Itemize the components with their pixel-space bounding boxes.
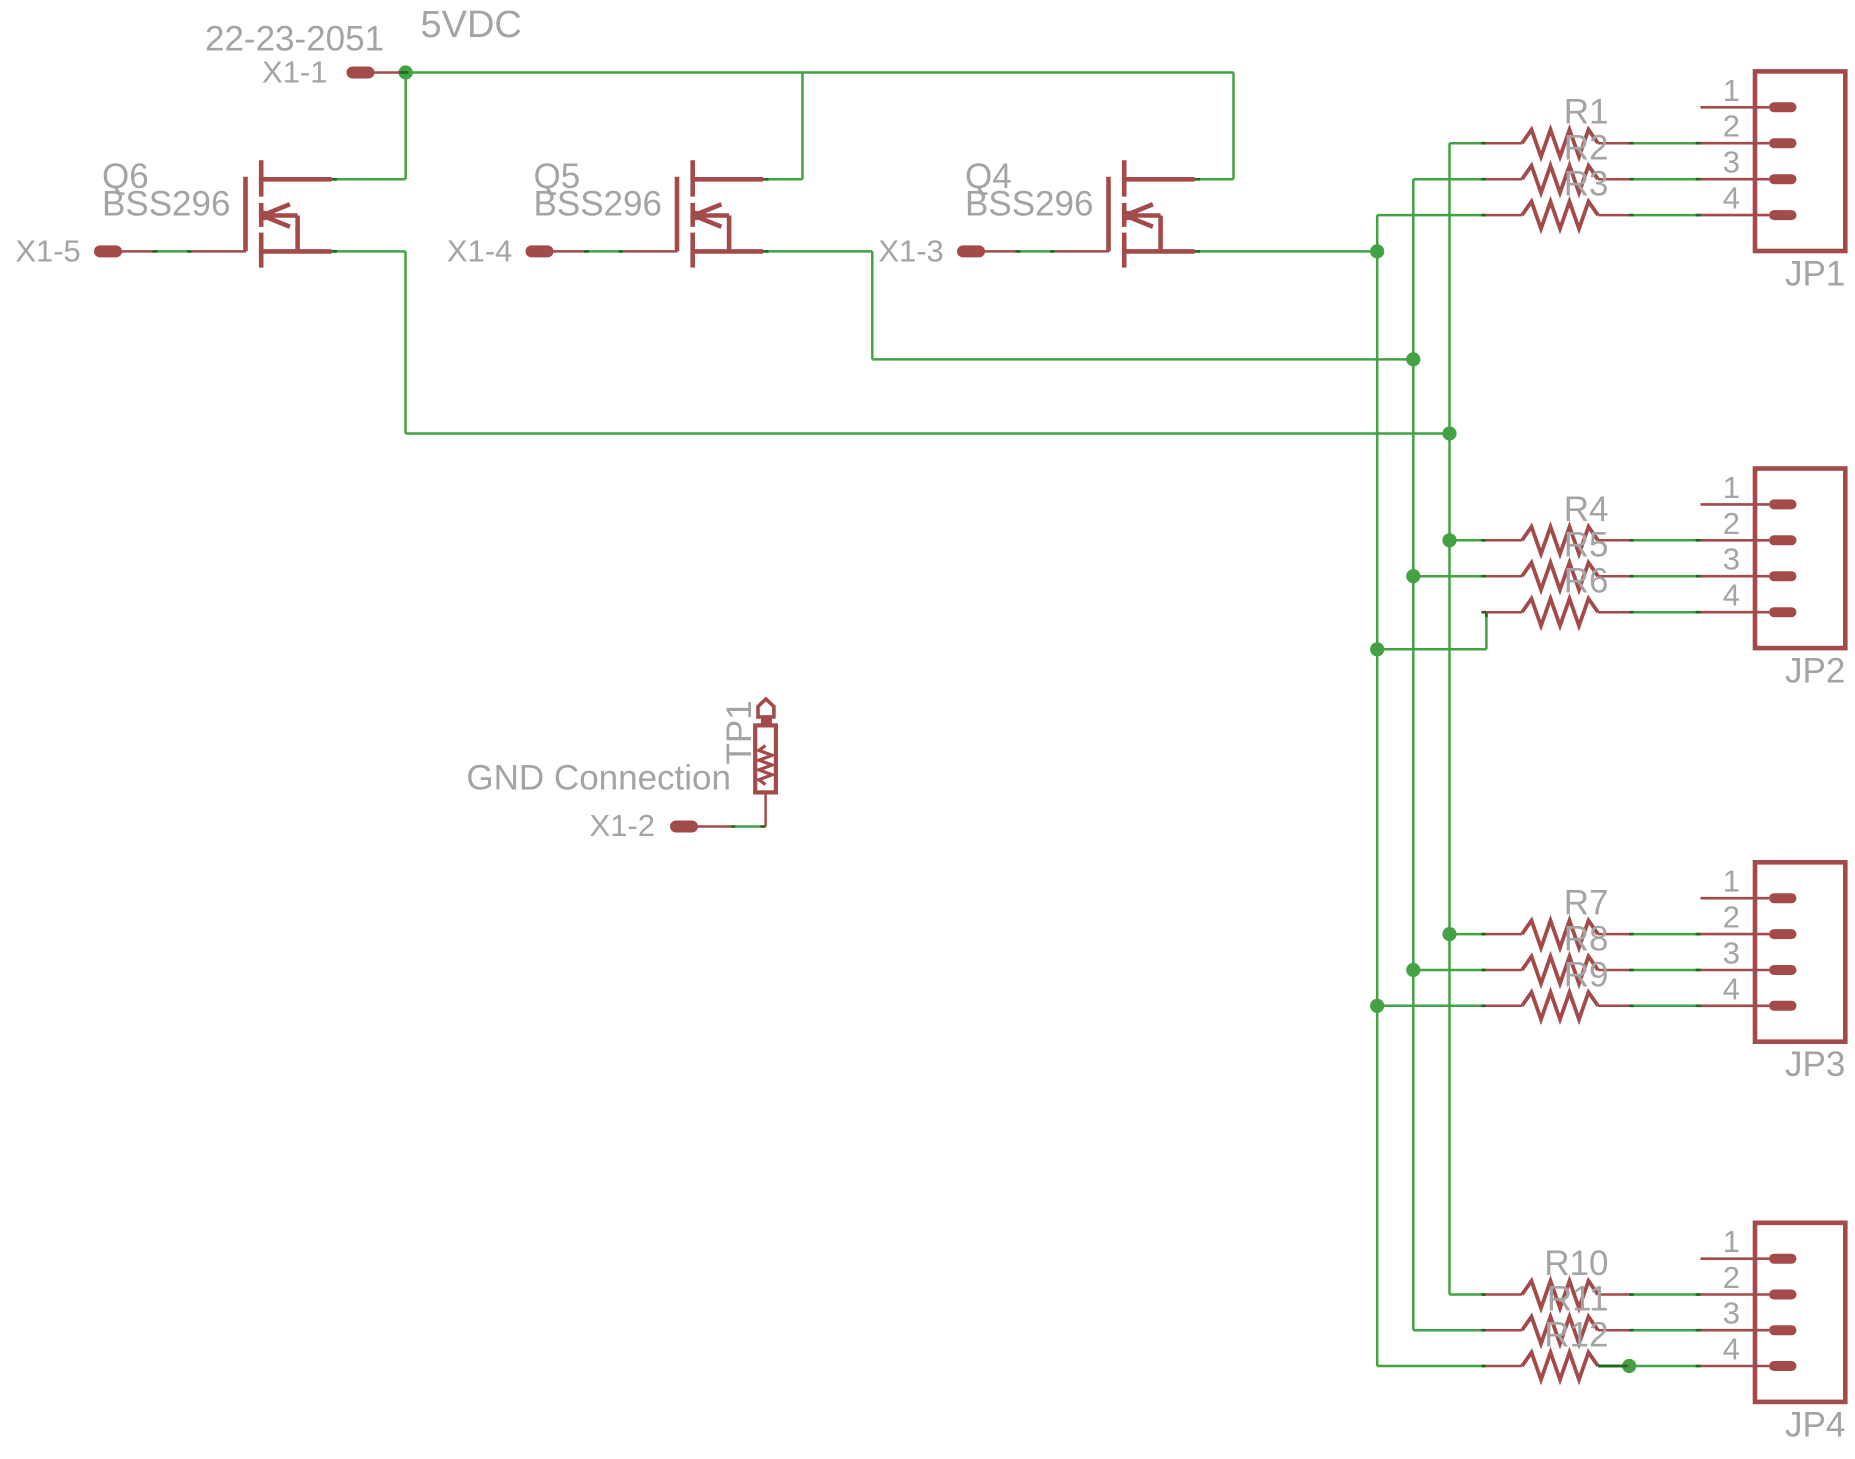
wire X1-4 gate lead red segment xyxy=(623,250,677,253)
svg-text:1: 1 xyxy=(1723,1224,1740,1259)
wire R out to JP3 pin 4 xyxy=(1629,1005,1700,1008)
connector pin X1-2 pad xyxy=(670,821,698,833)
connector pin X1-4 pad xyxy=(526,245,554,257)
junction net A at R4 feeder xyxy=(1442,533,1456,547)
svg-text:JP3: JP3 xyxy=(1785,1045,1845,1084)
junction net B at R5 feeder xyxy=(1406,569,1420,583)
connector pin X1-1 lead xyxy=(374,71,400,74)
wire feeder JP4 row 2 xyxy=(1450,1293,1486,1296)
svg-text:BSS296: BSS296 xyxy=(534,185,662,224)
svg-text:X1-4: X1-4 xyxy=(447,234,512,269)
resistor R2 xyxy=(1486,166,1629,193)
svg-text:R5: R5 xyxy=(1564,526,1609,565)
wire net A drop from Q6 source xyxy=(404,251,407,433)
wire feeder JP3 row 2 xyxy=(1450,933,1486,936)
resistor R4 xyxy=(1486,527,1629,554)
test point TP1 xyxy=(755,699,776,827)
wire net B long vertical xyxy=(1412,179,1415,1330)
svg-text:4: 4 xyxy=(1723,971,1740,1006)
wire net 5VDC horizontal top xyxy=(406,71,1234,74)
connector JP4 xyxy=(1701,1223,1846,1402)
svg-text:5VDC: 5VDC xyxy=(421,4,522,46)
svg-text:R1: R1 xyxy=(1564,93,1609,132)
wire X1-5 gate lead red segment xyxy=(192,250,246,253)
junction net C at Q4 source xyxy=(1370,244,1384,258)
resistor R11 xyxy=(1486,1317,1629,1344)
wire feeder JP4 row 3 xyxy=(1413,1329,1486,1332)
connector pin X1-5 lead xyxy=(121,250,153,253)
svg-text:BSS296: BSS296 xyxy=(102,185,230,224)
resistor R3 xyxy=(1486,202,1629,229)
svg-text:TP1: TP1 xyxy=(720,700,759,764)
wire feeder JP3 row 3 xyxy=(1413,969,1486,972)
svg-text:2: 2 xyxy=(1723,109,1740,144)
dark pin dash inside 5VDC junction xyxy=(398,71,409,74)
svg-text:JP4: JP4 xyxy=(1785,1405,1845,1444)
junction net A at R7 feeder xyxy=(1442,927,1456,941)
wire R out to JP4 pin 3 xyxy=(1629,1329,1700,1332)
wire R out to JP1 pin 3 xyxy=(1629,178,1700,181)
svg-text:3: 3 xyxy=(1723,542,1740,577)
wire net C step under R6 horizontal xyxy=(1377,648,1486,651)
wire net 5VDC drop to Q6 drain xyxy=(404,73,407,180)
junction net A joins vertical xyxy=(1442,426,1456,440)
resistor R10 xyxy=(1486,1281,1629,1308)
svg-text:R4: R4 xyxy=(1564,490,1609,529)
connector JP3 xyxy=(1701,862,1846,1041)
svg-text:JP2: JP2 xyxy=(1785,652,1845,691)
wire R out to JP4 pin 4 xyxy=(1629,1365,1700,1368)
wire R out to JP2 pin 4 xyxy=(1629,611,1700,614)
junction net C at R9 feeder xyxy=(1370,999,1384,1013)
connector JP1 xyxy=(1701,71,1846,251)
svg-text:R12: R12 xyxy=(1544,1316,1608,1355)
svg-text:22-23-2051: 22-23-2051 xyxy=(205,20,384,59)
connector pin X1-2 lead xyxy=(697,825,730,828)
wire R out to JP1 pin 4 xyxy=(1629,214,1700,217)
svg-text:X1-1: X1-1 xyxy=(262,55,327,90)
svg-text:BSS296: BSS296 xyxy=(965,185,1093,224)
svg-text:3: 3 xyxy=(1723,145,1740,180)
transistor Q6 BSS296 xyxy=(246,160,332,267)
wire Q4 drain stub xyxy=(1200,178,1234,181)
connector JP2 xyxy=(1701,469,1846,649)
wire net C step under R6 riser xyxy=(1485,612,1488,649)
wire Q6 drain to 5VDC riser xyxy=(337,178,406,181)
resistor R7 xyxy=(1486,921,1629,948)
svg-text:GND Connection: GND Connection xyxy=(466,759,731,798)
wire Q5 source stub xyxy=(768,250,872,253)
wire feeder JP1 row 3 xyxy=(1413,178,1486,181)
junction net B at R8 feeder xyxy=(1406,963,1420,977)
svg-text:2: 2 xyxy=(1723,900,1740,935)
wire feeder JP1 row 4 xyxy=(1377,214,1486,217)
svg-text:X1-5: X1-5 xyxy=(15,234,80,269)
svg-text:R2: R2 xyxy=(1564,129,1609,168)
wire overlap on R12 output (dark, over lead) xyxy=(1598,1365,1627,1368)
svg-text:2: 2 xyxy=(1723,1260,1740,1295)
junction net B joins vertical xyxy=(1406,352,1420,366)
wire X1-3 gate lead segment xyxy=(1021,250,1050,253)
svg-text:4: 4 xyxy=(1723,181,1740,216)
svg-text:4: 4 xyxy=(1723,578,1740,613)
svg-text:4: 4 xyxy=(1723,1332,1740,1367)
wire R out to JP4 pin 2 xyxy=(1629,1293,1700,1296)
junction at R12 output xyxy=(1622,1359,1636,1373)
svg-text:R11: R11 xyxy=(1547,1280,1609,1319)
svg-text:JP1: JP1 xyxy=(1785,255,1845,294)
connector pin X1-4 lead xyxy=(553,250,585,253)
wire Q5 drain stub xyxy=(768,178,803,181)
svg-text:X1-2: X1-2 xyxy=(590,808,655,843)
wire R out to JP2 pin 2 xyxy=(1629,539,1700,542)
wire net 5VDC drop to Q5 drain xyxy=(801,73,804,180)
svg-text:R9: R9 xyxy=(1564,955,1609,994)
wire net A long vertical xyxy=(1448,143,1451,1294)
svg-text:1: 1 xyxy=(1723,470,1740,505)
wire R out to JP2 pin 3 xyxy=(1629,575,1700,578)
pin-wire overlap tips (dark green) xyxy=(153,143,1701,1366)
svg-text:2: 2 xyxy=(1723,506,1740,541)
connector pin X1-1 pad xyxy=(347,67,375,79)
wire X1-4 gate lead segment xyxy=(589,250,618,253)
wire feeder JP1 row 2 xyxy=(1450,142,1486,145)
svg-text:R10: R10 xyxy=(1544,1244,1608,1283)
wire net B drop from Q5 source xyxy=(871,251,874,359)
wire net C long vertical xyxy=(1376,215,1379,1366)
wire X1-3 gate lead red segment xyxy=(1055,250,1109,253)
wire Q4 source to net C vertical xyxy=(1200,250,1378,253)
resistor R1 xyxy=(1486,130,1629,157)
svg-text:R6: R6 xyxy=(1564,562,1609,601)
wire overlap on R12 output (dark) xyxy=(1598,1365,1629,1368)
wire feeder JP4 row 4 xyxy=(1377,1365,1486,1368)
transistor Q4 BSS296 xyxy=(1109,160,1195,267)
wire net B horizontal run xyxy=(872,358,1413,361)
resistor R8 xyxy=(1486,956,1629,983)
resistor R9 xyxy=(1486,992,1629,1019)
junction net C at R6 step xyxy=(1370,642,1384,656)
wire R out to JP3 pin 2 xyxy=(1629,933,1700,936)
junction 5VDC at X1-1 xyxy=(399,65,413,79)
svg-text:1: 1 xyxy=(1723,73,1740,108)
wire X1-5 gate lead segment xyxy=(158,250,187,253)
svg-text:R8: R8 xyxy=(1564,920,1609,959)
wire feeder JP3 row 4 xyxy=(1377,1005,1486,1008)
wire net 5VDC drop to Q4 drain xyxy=(1232,73,1235,180)
svg-text:R3: R3 xyxy=(1564,165,1609,204)
wire feeder JP2 row 3 xyxy=(1413,575,1486,578)
resistor R12 xyxy=(1486,1352,1629,1379)
svg-text:3: 3 xyxy=(1723,936,1740,971)
wire Q6 source stub xyxy=(337,250,406,253)
connector pin X1-3 lead xyxy=(984,250,1016,253)
svg-text:X1-3: X1-3 xyxy=(878,234,943,269)
resistor R5 xyxy=(1486,563,1629,590)
wire feeder JP2 row 2 xyxy=(1450,539,1486,542)
wire R out to JP1 pin 2 xyxy=(1629,142,1700,145)
resistor R6 xyxy=(1486,599,1629,626)
transistor Q5 BSS296 xyxy=(677,160,763,267)
connector pin X1-5 pad xyxy=(94,245,122,257)
svg-text:1: 1 xyxy=(1723,864,1740,899)
wire X1-2 to TP1 xyxy=(735,825,761,828)
svg-text:3: 3 xyxy=(1723,1296,1740,1331)
wire R out to JP3 pin 3 xyxy=(1629,969,1700,972)
wire net A horizontal run xyxy=(406,432,1450,435)
svg-text:R7: R7 xyxy=(1564,884,1609,923)
connector pin X1-3 pad xyxy=(957,245,985,257)
